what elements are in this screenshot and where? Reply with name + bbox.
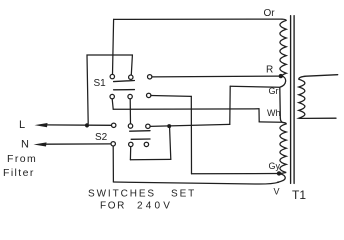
switch S2 pole A contacts — [112, 123, 151, 128]
L input arrowhead — [35, 123, 48, 127]
switch S1 pole A bridge bar — [114, 81, 135, 82]
wire: N lead — [43, 143, 111, 145]
wire: S2 pole B left drop for V — [112, 146, 114, 182]
wire: S1 pole B left drop for Wh — [112, 99, 113, 109]
svg-text:Gr: Gr — [269, 86, 279, 96]
N input arrowhead — [34, 142, 47, 146]
wire: L lead — [44, 124, 112, 126]
wire: junction dot drop — [170, 128, 171, 159]
wire: Or riser from S1 — [113, 19, 114, 74]
svg-text:S1: S1 — [94, 78, 107, 89]
wire: Gr horizontal to tap — [230, 85, 279, 88]
wire: Wh horizontal run — [113, 108, 259, 111]
label From Filter — [3, 153, 37, 179]
switch S2 pole A bridge bar — [130, 130, 150, 133]
svg-text:Or: Or — [264, 8, 276, 19]
caption SWITCHES SET — [88, 189, 196, 200]
svg-text:FOR: FOR — [100, 201, 126, 212]
switch S1 pole B contacts — [110, 93, 151, 99]
node: Gy tap dot — [277, 171, 281, 175]
svg-text:V: V — [274, 187, 280, 197]
node: R tap dot — [279, 74, 283, 78]
svg-text:From: From — [7, 153, 37, 165]
svg-text:SET: SET — [171, 189, 196, 200]
caption FOR 240V — [100, 201, 173, 212]
transformer T1 primary winding — [278, 19, 287, 182]
svg-text:S2: S2 — [95, 132, 108, 143]
svg-text:Wh: Wh — [267, 108, 281, 118]
transformer T1 secondary winding — [299, 75, 338, 119]
svg-text:Gy: Gy — [269, 161, 281, 171]
transformer T1 core — [291, 16, 295, 184]
wire: S1 pole B centre down to S2 pole A centre — [129, 99, 131, 124]
svg-text:Filter: Filter — [3, 167, 35, 179]
switch S1 pole A contacts — [110, 74, 152, 79]
svg-text:L: L — [19, 119, 25, 131]
svg-text:N: N — [21, 139, 29, 151]
wire: S2 pole A right contact run toward Gr — [150, 124, 230, 126]
svg-text:R: R — [266, 65, 273, 76]
wire: S1 pole B right contact toward Gy — [151, 95, 191, 98]
wire: Gy horizontal run to tap — [192, 173, 278, 175]
svg-text:SWITCHES: SWITCHES — [88, 189, 156, 200]
switch S2 pole B bridge bar — [131, 138, 150, 140]
wire: link run to S2 pole B centre — [130, 158, 170, 160]
wire: V bottom run to transformer — [113, 182, 278, 184]
wire: L riser and run to S1 pole A centre — [87, 55, 132, 124]
wire: Gy riser down — [190, 96, 192, 173]
svg-text:T1: T1 — [292, 188, 306, 202]
wire: Or top run to transformer — [114, 18, 282, 20]
wire: S2 pole B centre riser — [129, 147, 131, 160]
node: L junction dot — [85, 123, 89, 127]
wire: S1 pole A right contact to R tap — [152, 75, 279, 78]
wire: Wh step down — [258, 109, 260, 122]
switch S1 pole B bridge bar — [114, 89, 135, 91]
wire: Gr riser up — [229, 86, 231, 124]
switch S2 pole B contacts — [111, 142, 149, 147]
svg-text:240V: 240V — [137, 201, 173, 212]
node: junction dot on Gr net — [167, 124, 171, 128]
wire: Wh run to tap — [259, 121, 281, 123]
